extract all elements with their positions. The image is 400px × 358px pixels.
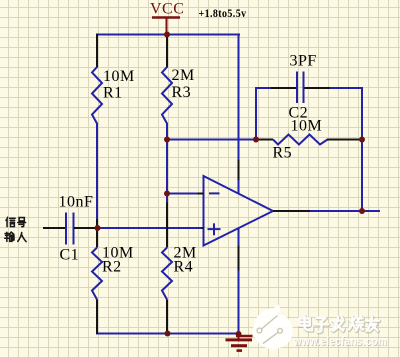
R5 designator label	[273, 145, 293, 162]
resistor R5	[257, 135, 361, 145]
svg-text:R4: R4	[174, 259, 194, 276]
junction feedback left	[253, 137, 259, 143]
VCC net label	[150, 1, 184, 18]
resistor R3	[162, 34, 172, 124]
R4 value label 2M	[174, 245, 197, 262]
wire feedback right vertical	[361, 140, 363, 212]
R2 value label 10M	[102, 245, 134, 262]
svg-text:R5: R5	[273, 145, 293, 162]
wire op-amp V- to ground rail	[238, 271, 240, 335]
capacitor C2	[271, 72, 330, 104]
ground	[226, 334, 253, 351]
R2 designator label	[102, 259, 122, 276]
svg-text:10M: 10M	[103, 68, 135, 85]
svg-text:www.elecfans.com: www.elecfans.com	[293, 336, 387, 348]
R3 value label 2M	[172, 67, 195, 84]
svg-text:2M: 2M	[172, 67, 195, 84]
wire C2 left bracket	[256, 88, 272, 141]
svg-text:C2: C2	[289, 105, 309, 122]
svg-text:C1: C1	[60, 247, 80, 264]
svg-text:10nF: 10nF	[59, 194, 94, 211]
junction input node	[95, 225, 101, 231]
wire op-amp V+ pin gap segment	[238, 180, 240, 194]
wire C2 right bracket	[330, 88, 363, 141]
watermark text 电子发烧友	[300, 317, 380, 333]
R5 value label 10M	[291, 118, 323, 135]
junction VCC rail	[164, 32, 170, 38]
wire R1 bottom to input node	[96, 123, 98, 220]
wire ground rail	[96, 333, 240, 335]
C2 designator label	[289, 105, 309, 122]
op-amp non-inverting input marker	[208, 223, 221, 235]
C1 value label 10nF	[59, 194, 94, 211]
junction ground point	[236, 331, 242, 337]
svg-text:R2: R2	[102, 259, 122, 276]
wire top VCC rail	[96, 34, 240, 36]
wire feedback horizontal node	[167, 139, 256, 141]
junction inverting input	[164, 191, 170, 197]
wire R3 bottom vertical	[166, 123, 168, 203]
junction output node	[359, 208, 365, 214]
svg-text:+1.8to5.5v: +1.8to5.5v	[199, 6, 247, 20]
svg-text:R1: R1	[103, 85, 123, 102]
op-amp U1	[198, 160, 311, 271]
power symbol VCC	[152, 18, 180, 35]
watermark url www.elecfans.com	[293, 336, 388, 349]
junction feedback right	[359, 137, 365, 143]
op-amp inverting input marker	[209, 192, 220, 194]
supply range label +1.8to5.5v	[199, 6, 247, 20]
junction R3 bottom feedback	[164, 137, 170, 143]
C1 designator label	[60, 247, 80, 264]
R1 value label 10M	[103, 68, 135, 85]
resistor R4	[162, 203, 172, 335]
resistor R1	[92, 34, 102, 229]
svg-text:3PF: 3PF	[290, 52, 317, 69]
svg-text:R3: R3	[172, 84, 192, 101]
wire below op-amp V-	[238, 228, 240, 246]
capacitor C1	[43, 213, 97, 245]
watermark logo	[253, 305, 293, 350]
port label 信号输入 (signal input)	[5, 217, 26, 241]
wire non-inverting input	[98, 227, 202, 229]
C2 value label 3PF	[290, 52, 317, 69]
wire riser to op-amp V+	[238, 34, 240, 161]
R3 designator label	[172, 84, 192, 101]
junction ground rail R4	[165, 331, 171, 337]
wire inverting input	[167, 193, 198, 195]
R1 designator label	[103, 85, 123, 102]
wire output	[310, 210, 381, 212]
R4 designator label	[174, 259, 194, 276]
resistor R2	[92, 228, 102, 334]
svg-text:VCC: VCC	[150, 1, 184, 18]
